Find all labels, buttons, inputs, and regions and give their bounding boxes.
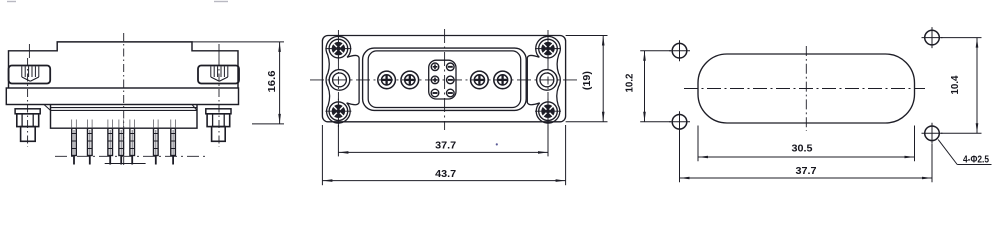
front view: power contact A4	[494, 71, 512, 89]
dimension 37.7 extension lines (front view)	[337, 125, 339, 156]
dimension 16.6 line with arrows	[279, 42, 281, 124]
front view: left scalloped boss contour	[326, 36, 359, 123]
dimension 30.5 line	[698, 156, 915, 158]
dimension 10.2 extension lines	[640, 50, 671, 52]
front view: mounting hole bottom-left	[329, 102, 348, 121]
side view: body corner chamfers	[44, 105, 51, 111]
side view: right screw shank	[212, 127, 226, 142]
svg-text:30.5: 30.5	[792, 142, 813, 154]
side view: right hex nut	[207, 114, 230, 127]
svg-text:37.7: 37.7	[435, 140, 456, 152]
front view: right scalloped boss contour	[527, 36, 560, 123]
dimension 10.2 line	[644, 51, 646, 122]
front view: connector face	[310, 29, 608, 185]
side view: central axis centerline	[123, 33, 125, 168]
front view: horizontal centerline	[310, 79, 578, 81]
front view: signal contact 6 (bar)	[447, 89, 455, 97]
side view: left hex nut	[17, 114, 39, 127]
panel hole bottom-left	[672, 115, 687, 130]
front view: centre signal insert outline	[429, 60, 456, 99]
left standoff thread hatch	[21, 66, 23, 77]
stray blue speck	[496, 143, 498, 145]
dimension 10.4 line	[976, 38, 978, 134]
dimension 37.7 line (front view)	[338, 151, 548, 153]
front view: flange outline	[322, 36, 565, 122]
front view: signal contact 3 (bar)	[431, 89, 439, 97]
front view: shell inner wall	[368, 51, 521, 108]
side view: pin hidden edges through body	[75, 120, 77, 129]
front view: shell outer wall	[363, 48, 527, 110]
side view: left screw shank	[21, 127, 36, 142]
svg-text:10.4: 10.4	[950, 75, 961, 95]
front view: power contact A1	[378, 71, 396, 89]
cut-out vertical centerline	[805, 46, 807, 131]
dimension 43.7 line	[322, 180, 565, 182]
side view: right jackscrew standoff nut	[198, 66, 239, 84]
left standoff centerline	[28, 44, 30, 58]
panel hole top-left	[672, 43, 687, 58]
panel cut-out view	[624, 27, 991, 182]
front view: right middle guide hole	[537, 70, 558, 91]
front view: left column centerline	[337, 30, 339, 127]
dimension 37.7 line (panel)	[680, 177, 933, 179]
side view: PCB datum dash-dot line	[55, 155, 206, 157]
front view: mounting hole bottom-right	[539, 102, 558, 121]
dimension 10.4 extension lines	[941, 37, 982, 39]
front view: mounting hole top-right	[539, 39, 558, 58]
left view: connector side elevation	[6, 2, 284, 169]
dimension 16.6 extension lines	[192, 41, 284, 43]
svg-text:10.2: 10.2	[624, 73, 635, 93]
front view: power contact A2	[401, 71, 419, 89]
cut-out horizontal centerline	[684, 88, 925, 90]
side view: alignment bar under centre pins	[105, 163, 146, 165]
dimension 30.5 extension lines	[697, 126, 699, 162]
front view: signal contact 4 (bar)	[447, 63, 455, 71]
front view: signal contact 2 (cross)	[431, 76, 439, 84]
right standoff thread hatch	[210, 66, 212, 77]
svg-text:43.7: 43.7	[435, 168, 456, 180]
front view: vertical centerline	[444, 29, 446, 130]
svg-text:37.7: 37.7	[796, 165, 817, 177]
faint artifact marks at top	[7, 1, 16, 3]
dimension 43.7 extension lines	[321, 125, 323, 185]
svg-text:4-Φ2.5: 4-Φ2.5	[963, 155, 989, 166]
svg-text:16.6: 16.6	[267, 70, 278, 92]
dimension (19) line	[602, 36, 604, 122]
side view: left washer	[15, 109, 40, 114]
front view: power contact A3	[471, 71, 489, 89]
leader line for hole callout	[938, 140, 957, 165]
panel hole top-right	[925, 30, 940, 45]
front view: signal contact 5 (bar)	[447, 76, 455, 84]
side view: right washer	[206, 109, 231, 114]
dimension 37.7 extension lines (panel)	[679, 129, 681, 182]
side view: left jackscrew standoff nut	[9, 66, 51, 84]
front view: mounting hole top-left	[329, 39, 348, 58]
side view: flange plate	[6, 88, 238, 105]
front view: left middle guide hole	[329, 70, 350, 91]
dimension (19) extension lines	[566, 35, 608, 37]
panel cut-out obround	[698, 54, 915, 123]
side view: insulator body below flange	[51, 105, 198, 129]
side view: top outline with raised center block	[9, 42, 239, 88]
side view: contact tail pins	[72, 128, 77, 155]
front view: signal contact 1 (cross)	[431, 63, 439, 71]
right standoff centerline	[218, 44, 220, 58]
svg-text:(19): (19)	[582, 71, 593, 90]
front view: right column centerline	[547, 30, 549, 127]
panel hole bottom-right	[925, 126, 940, 141]
